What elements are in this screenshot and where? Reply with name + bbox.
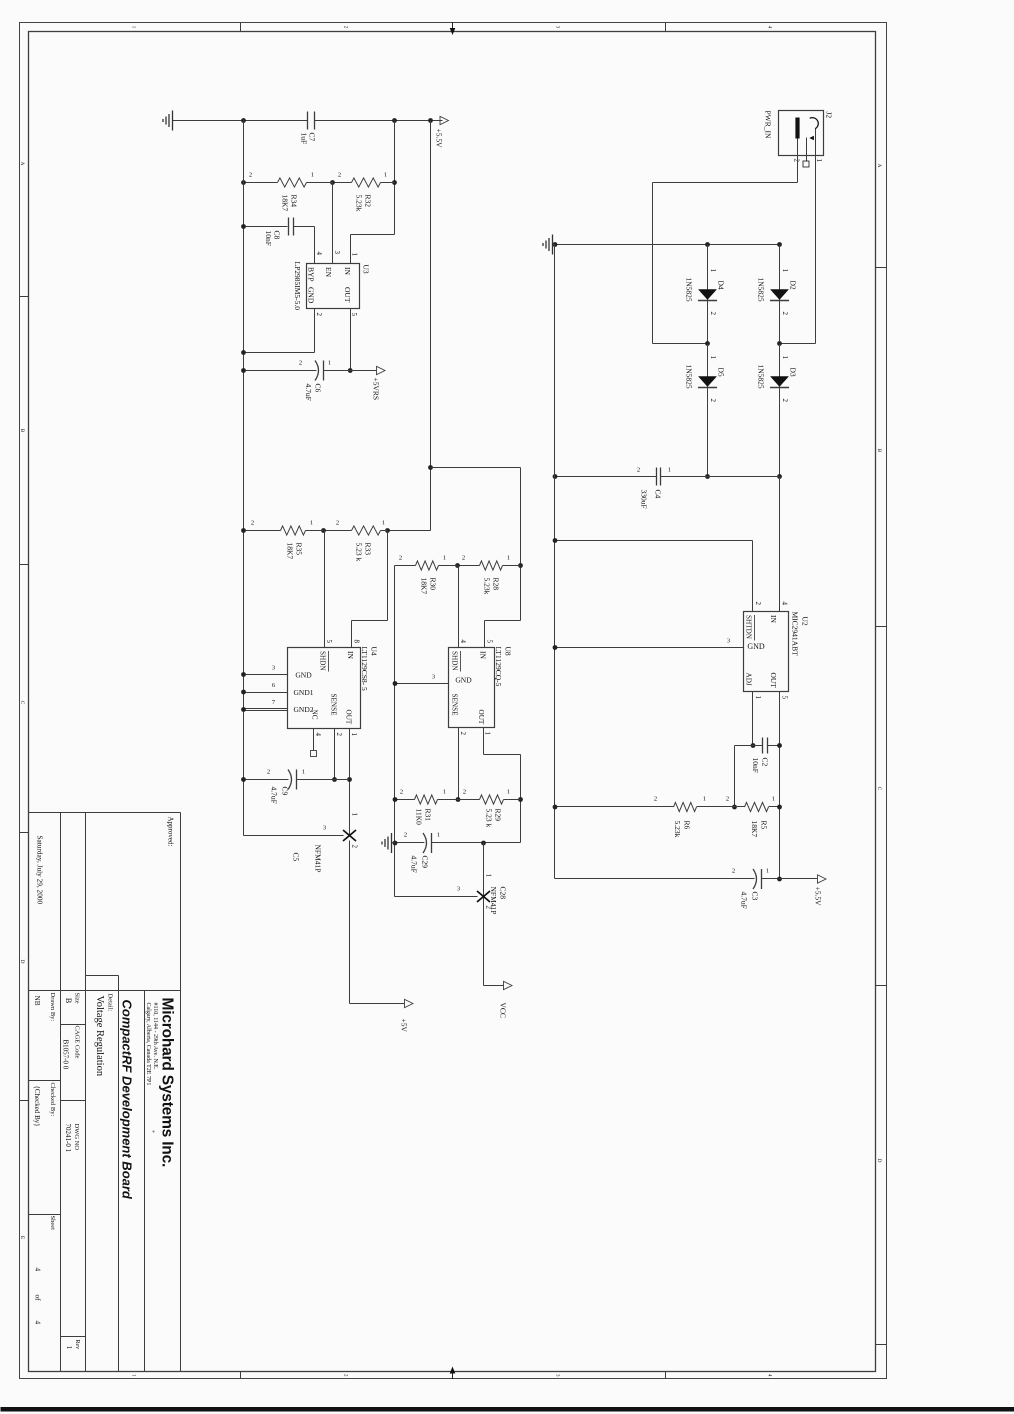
node D2 anode — [777, 242, 782, 247]
svg-text:C: C — [19, 701, 25, 705]
svg-text:GND1: GND1 — [294, 688, 314, 697]
ground G1 — [173, 120, 175, 122]
svg-text:of: of — [34, 1295, 43, 1302]
J2 sleeve hook — [810, 118, 819, 129]
svg-text:1: 1 — [382, 520, 385, 527]
wire R28 top route — [520, 566, 522, 621]
svg-text:3: 3 — [727, 638, 730, 645]
svg-text:NFM41P: NFM41P — [314, 845, 323, 873]
node C6 gnd — [241, 368, 246, 373]
svg-text:5: 5 — [486, 640, 494, 644]
diode D3 1N5825 — [779, 344, 781, 477]
wire U4 in route — [387, 531, 389, 621]
wire +55 to R33 — [388, 530, 431, 532]
svg-text:2: 2 — [709, 399, 717, 403]
ground G2 — [553, 244, 555, 246]
sheet inner border — [29, 32, 876, 1372]
resistor R5 18K7 — [769, 806, 780, 808]
svg-text:R31: R31 — [424, 809, 433, 822]
svg-text:10nF: 10nF — [264, 231, 273, 246]
svg-text:IN: IN — [343, 267, 352, 275]
J2 centre pin bar — [795, 118, 799, 139]
wire gnd bus — [554, 245, 556, 879]
svg-text:2: 2 — [754, 602, 762, 606]
svg-text:1: 1 — [815, 159, 823, 163]
svg-text:1: 1 — [766, 868, 769, 875]
capacitor C8 — [294, 226, 315, 228]
svg-text:GND2: GND2 — [294, 705, 314, 714]
svg-text:1: 1 — [484, 732, 492, 736]
capacitor C4 330uF — [661, 476, 780, 478]
svg-text:D: D — [19, 960, 25, 964]
svg-text:18K7: 18K7 — [420, 578, 429, 595]
node D2-D3 — [777, 341, 782, 346]
svg-text:R35: R35 — [295, 543, 304, 556]
zone ticks right border — [665, 1372, 667, 1379]
ground G3 — [392, 842, 395, 844]
node adj — [751, 743, 756, 748]
node rail C8 tee — [392, 118, 397, 123]
svg-text:Drawn By:: Drawn By: — [49, 993, 56, 1022]
svg-text:D2: D2 — [789, 281, 798, 290]
svg-text:OUT: OUT — [343, 287, 352, 303]
node R28 top — [518, 563, 523, 568]
svg-text:1: 1 — [311, 172, 314, 179]
svg-text:R34: R34 — [290, 195, 299, 208]
svg-text:C29: C29 — [421, 856, 430, 869]
wire U4 gnd2 double — [244, 708, 288, 710]
wire U2 gnd — [555, 647, 744, 649]
svg-text:2: 2 — [336, 520, 339, 527]
svg-text:2: 2 — [338, 172, 341, 179]
svg-text:5: 5 — [350, 313, 358, 317]
wire U8 gnd — [395, 683, 449, 685]
regulator U2 box — [744, 612, 789, 692]
node C9 gnd — [241, 777, 246, 782]
svg-text:1: 1 — [351, 813, 359, 817]
svg-text:CompactRF Development Board: CompactRF Development Board — [120, 1000, 135, 1200]
svg-text:1: 1 — [668, 467, 671, 474]
speck near company name — [153, 1131, 155, 1133]
wire U4 out — [349, 729, 351, 836]
svg-text:2: 2 — [351, 845, 359, 849]
svg-text:NFM41P: NFM41P — [489, 887, 498, 915]
svg-text:3: 3 — [555, 26, 560, 29]
node +5v branch — [428, 465, 433, 470]
svg-text:1: 1 — [131, 26, 136, 29]
wire U3 out — [350, 309, 352, 371]
svg-text:R29: R29 — [494, 809, 503, 822]
svg-text:LT1129CS8- 5: LT1129CS8- 5 — [360, 647, 369, 691]
wire U4 shdn — [324, 531, 326, 648]
svg-text:1: 1 — [485, 874, 493, 878]
wire U2 out — [779, 692, 781, 879]
svg-text:7: 7 — [272, 699, 276, 706]
node R35 gnd — [241, 528, 246, 533]
svg-text:OUT: OUT — [477, 710, 485, 725]
resistor R31 11K0 — [438, 799, 459, 801]
node R33 top — [385, 528, 390, 533]
resistor R30 18K7 — [439, 565, 458, 567]
svg-text:Microhard Systems Inc.: Microhard Systems Inc. — [159, 998, 176, 1168]
svg-text:GND: GND — [295, 671, 312, 680]
svg-text:A: A — [876, 164, 882, 168]
svg-text:1: 1 — [781, 356, 789, 360]
node R31 gnd — [393, 797, 398, 802]
svg-text:5.23k: 5.23k — [483, 578, 492, 595]
svg-text:1: 1 — [437, 832, 440, 839]
svg-text:2: 2 — [404, 832, 407, 839]
svg-text:R32: R32 — [364, 195, 373, 208]
wire U4 gnd1 — [244, 692, 288, 694]
wire bridge left — [555, 244, 780, 246]
resistor R32 — [381, 182, 395, 184]
svg-text:1: 1 — [754, 696, 762, 700]
node R5 top — [777, 805, 782, 810]
svg-text:GND: GND — [455, 676, 472, 685]
svg-text:B: B — [19, 429, 25, 433]
svg-text:330uF: 330uF — [640, 490, 649, 509]
power +5.5V arrow A — [440, 116, 449, 124]
svg-text:2: 2 — [251, 520, 254, 527]
svg-text:2: 2 — [732, 868, 735, 875]
J2 switch arrow — [809, 136, 814, 141]
svg-text:2: 2 — [400, 789, 403, 796]
scan edge line — [1, 1407, 1014, 1412]
connector J2 box — [779, 111, 824, 156]
wire U2 adj — [752, 692, 754, 746]
svg-text:SHDN: SHDN — [451, 651, 459, 671]
node R33-R35 / shdn tap — [321, 528, 326, 533]
svg-text:2: 2 — [654, 796, 657, 803]
svg-text:5.23k: 5.23k — [673, 821, 682, 838]
svg-text:PWR_IN: PWR_IN — [764, 111, 773, 140]
svg-text:4: 4 — [315, 252, 323, 256]
svg-text:2: 2 — [335, 733, 343, 737]
svg-text:10nF: 10nF — [751, 758, 760, 773]
svg-text:1: 1 — [443, 555, 446, 562]
svg-text:IN: IN — [346, 651, 355, 659]
svg-text:2: 2 — [343, 1374, 348, 1377]
svg-text:1N5825: 1N5825 — [757, 365, 766, 389]
diode D5 1N5825 — [707, 344, 709, 477]
svg-text:8: 8 — [353, 640, 361, 644]
svg-text:4: 4 — [314, 733, 322, 737]
wire U3 gnd route — [314, 309, 316, 353]
svg-text:U4: U4 — [370, 647, 379, 656]
diode D4 1N5825 — [707, 245, 709, 344]
svg-text:C28: C28 — [499, 887, 508, 900]
svg-text:4.7uF: 4.7uF — [410, 856, 419, 873]
svg-text:2: 2 — [315, 313, 323, 317]
svg-text:Rev: Rev — [74, 1340, 80, 1350]
svg-text:3: 3 — [432, 674, 435, 681]
J2 switch stub — [806, 138, 808, 162]
regulator U4 box — [288, 648, 361, 729]
svg-text:11K0: 11K0 — [415, 809, 424, 826]
centre arrow left border — [452, 23, 454, 34]
wire +5V out — [349, 841, 351, 1004]
svg-text:2: 2 — [399, 555, 402, 562]
svg-text:1: 1 — [328, 360, 331, 367]
wire +5.5V rail top — [315, 120, 443, 122]
svg-text:2: 2 — [463, 789, 466, 796]
svg-text:LT1129CQ-5: LT1129CQ-5 — [494, 647, 503, 687]
svg-text:6: 6 — [272, 682, 276, 689]
svg-text:+5.5V: +5.5V — [814, 887, 823, 907]
power +5VRS arrow — [351, 370, 377, 372]
svg-text:IN: IN — [769, 615, 778, 623]
capacitor C29 4.7uF — [432, 842, 521, 844]
svg-text:Saturday, July 29, 2000: Saturday, July 29, 2000 — [36, 836, 45, 905]
wire EN — [332, 183, 334, 264]
node R34 gnd — [241, 180, 246, 185]
capacitor C7 — [314, 112, 316, 130]
node D4 anode — [705, 242, 710, 247]
wire adj to divider — [735, 745, 753, 747]
svg-text:18K7: 18K7 — [750, 821, 759, 838]
svg-text:D: D — [876, 1159, 882, 1163]
node D4-D5 — [705, 341, 710, 346]
node R29 top — [518, 797, 523, 802]
svg-text:NB: NB — [33, 996, 42, 1006]
svg-text:2: 2 — [462, 555, 465, 562]
svg-text:2: 2 — [249, 172, 252, 179]
feedthrough C28 NFM41P — [483, 843, 485, 986]
svg-text:1N5825: 1N5825 — [685, 365, 694, 389]
node C2 top — [777, 743, 782, 748]
node R5-R6 — [732, 805, 737, 810]
regulator U8 box — [449, 648, 495, 728]
svg-text:2: 2 — [299, 360, 302, 367]
svg-text:Sheet: Sheet — [49, 1216, 56, 1231]
node C3 top — [777, 877, 782, 882]
svg-text:4: 4 — [767, 26, 772, 29]
svg-text:4: 4 — [34, 1268, 43, 1272]
svg-text:1N5825: 1N5825 — [685, 278, 694, 302]
feedthrough C5 NFM41P — [343, 830, 356, 841]
svg-text:3: 3 — [333, 251, 341, 255]
svg-text:OUT: OUT — [345, 710, 353, 725]
svg-text:OUT: OUT — [769, 673, 778, 689]
zone ticks left border — [665, 23, 667, 32]
svg-text:2: 2 — [267, 769, 270, 776]
svg-text:Checked By:: Checked By: — [49, 1083, 56, 1117]
svg-text:1: 1 — [443, 789, 446, 796]
svg-text:C2: C2 — [761, 758, 770, 767]
svg-text:C4: C4 — [654, 490, 663, 499]
wire U2 shtdn — [752, 541, 754, 612]
svg-text:4: 4 — [34, 1321, 43, 1325]
svg-text:SENSE: SENSE — [330, 694, 338, 717]
node U3 gnd — [241, 350, 246, 355]
wire U8 in route — [485, 620, 521, 622]
svg-text:2: 2 — [781, 399, 789, 403]
svg-text:U3: U3 — [362, 265, 371, 274]
wire U3-IN route — [394, 121, 396, 235]
svg-text:70241-0 1: 70241-0 1 — [64, 1124, 72, 1153]
svg-text:2: 2 — [726, 796, 729, 803]
svg-text:SHTDN: SHTDN — [745, 615, 753, 640]
svg-text:B: B — [876, 449, 882, 453]
svg-text:Voltage Regulation: Voltage Regulation — [94, 996, 105, 1077]
zone ticks top border — [876, 267, 887, 269]
power +5V arrow — [405, 999, 414, 1007]
diode D2 1N5825 — [779, 245, 781, 344]
title block frame — [29, 812, 181, 814]
power VCC arrow — [484, 985, 504, 987]
capacitor C3 4.7uF — [762, 878, 780, 880]
svg-text:1: 1 — [772, 796, 775, 803]
resistor R29 5.23 k — [504, 799, 521, 801]
svg-text:2: 2 — [459, 732, 467, 736]
svg-text:DWG NO: DWG NO — [73, 1124, 80, 1151]
svg-text:1: 1 — [350, 733, 358, 737]
svg-text:4.7uF: 4.7uF — [304, 384, 313, 401]
svg-text:SHDN: SHDN — [319, 651, 327, 671]
svg-text:GND: GND — [307, 287, 316, 304]
svg-text:D3: D3 — [789, 368, 798, 377]
svg-text:R33: R33 — [364, 543, 373, 556]
U4 nc stub — [313, 729, 315, 751]
svg-text:5.23k: 5.23k — [355, 195, 364, 212]
svg-text:4: 4 — [459, 640, 467, 644]
svg-text:R30: R30 — [429, 578, 438, 591]
svg-text:C9: C9 — [281, 787, 290, 796]
wire bridge to U2 IN — [779, 477, 781, 612]
capacitor C6 — [324, 370, 351, 372]
svg-text:U2: U2 — [801, 617, 810, 626]
node D3 out — [777, 474, 782, 479]
svg-text:2: 2 — [709, 312, 717, 316]
node C29 gnd — [393, 841, 398, 846]
resistor R28 5.23k — [503, 565, 521, 567]
wire +5.5V distribution — [430, 121, 432, 531]
svg-text:C5: C5 — [292, 853, 301, 862]
resistor R35 18K7 — [306, 530, 324, 532]
svg-text:1: 1 — [703, 796, 706, 803]
node C4 gnd — [553, 474, 558, 479]
node C8 gnd — [241, 224, 246, 229]
svg-text:1uF: 1uF — [300, 133, 309, 145]
svg-text:4.7uF: 4.7uF — [270, 787, 279, 804]
zone ticks bottom border — [20, 296, 29, 298]
op-amp U3 box — [307, 264, 360, 309]
resistor R6 5.23k — [697, 806, 735, 808]
node shtdn gnd — [553, 538, 558, 543]
svg-text:18K7: 18K7 — [281, 195, 290, 212]
svg-text:3: 3 — [457, 886, 460, 893]
node C29 top — [481, 841, 486, 846]
svg-text:B: B — [64, 998, 73, 1003]
wire U8 sense — [458, 728, 460, 800]
svg-text:IN: IN — [479, 651, 488, 659]
svg-text:C6: C6 — [314, 384, 323, 393]
node R28-R30 / shdn tap — [455, 563, 460, 568]
svg-text:5.23 k: 5.23 k — [485, 809, 494, 828]
svg-text:2: 2 — [637, 467, 640, 474]
svg-text:GND: GND — [747, 642, 765, 651]
node rail +55 tee — [428, 118, 433, 123]
node out-C6 — [348, 368, 353, 373]
node rail-gnd junction — [241, 118, 246, 123]
centre arrow right border — [452, 1368, 454, 1379]
svg-text:4: 4 — [781, 602, 789, 606]
svg-text:+5V: +5V — [400, 1019, 409, 1033]
wire J2 pin1 — [815, 129, 817, 344]
wire U4 gnd — [244, 674, 288, 676]
svg-text:2: 2 — [793, 159, 801, 163]
svg-text:5: 5 — [325, 640, 333, 644]
svg-text:#110, 1144 - 29th Ave. N.E.: #110, 1144 - 29th Ave. N.E. — [152, 1003, 158, 1070]
svg-text:3: 3 — [323, 825, 326, 832]
svg-text:B1057-0 0: B1057-0 0 — [62, 1040, 70, 1070]
svg-text:1: 1 — [709, 356, 717, 360]
capacitor C9 4.7uF — [297, 779, 350, 781]
svg-text:{Checked By}: {Checked By} — [33, 1086, 41, 1127]
svg-text:1: 1 — [310, 520, 313, 527]
svg-text:Size: Size — [74, 993, 81, 1004]
svg-text:18K7: 18K7 — [286, 543, 295, 560]
wire R32 top tee — [392, 180, 397, 185]
svg-text:MIC2941ABT: MIC2941ABT — [791, 612, 800, 657]
svg-text:J2: J2 — [825, 112, 834, 119]
wire J2 pin2 — [797, 139, 799, 183]
svg-text:CAGE Code: CAGE Code — [74, 1026, 81, 1059]
svg-text:1: 1 — [384, 172, 387, 179]
svg-text:R6: R6 — [683, 821, 692, 830]
svg-text:1: 1 — [507, 789, 510, 796]
svg-text:+5.5V: +5.5V — [435, 129, 444, 149]
wire +5v to chains corner — [431, 467, 521, 469]
wire U8 out — [483, 728, 485, 755]
svg-text:VCC: VCC — [499, 1003, 508, 1018]
svg-text:+5VRS: +5VRS — [372, 378, 381, 401]
svg-text:C: C — [876, 787, 882, 791]
svg-text:1: 1 — [65, 1346, 73, 1350]
wire gnd rail — [243, 121, 245, 836]
svg-text:4: 4 — [767, 1374, 772, 1377]
svg-text:3: 3 — [555, 1374, 560, 1377]
svg-text:SENSE: SENSE — [451, 694, 459, 717]
wire BYP — [314, 227, 316, 264]
svg-text:EN: EN — [324, 267, 333, 278]
svg-text:R5: R5 — [760, 821, 769, 830]
svg-text:2: 2 — [343, 26, 348, 29]
svg-text:D5: D5 — [717, 368, 726, 377]
svg-text:C3: C3 — [751, 892, 760, 901]
resistor R33 5.23k — [381, 530, 388, 532]
capacitor C2 10nF — [768, 745, 780, 747]
svg-text:4.7uF: 4.7uF — [740, 892, 749, 909]
svg-text:1: 1 — [709, 269, 717, 273]
wire U4 sense — [334, 729, 336, 780]
node EN tap — [330, 180, 335, 185]
wire gnd2 line — [394, 566, 396, 897]
svg-text:5: 5 — [781, 696, 789, 700]
svg-text:Calgary, Alberta, Canada T2E: Calgary, Alberta, Canada T2E 7P1 — [145, 1003, 151, 1086]
svg-text:D4: D4 — [717, 281, 726, 290]
resistor R34 — [307, 182, 333, 184]
svg-text:1: 1 — [302, 769, 305, 776]
svg-text:2: 2 — [781, 312, 789, 316]
svg-text:3: 3 — [272, 665, 275, 672]
wire U8 shdn — [458, 566, 460, 648]
svg-text:BYP: BYP — [307, 267, 316, 282]
svg-text:A: A — [19, 162, 25, 166]
svg-text:Detail:: Detail: — [107, 994, 114, 1012]
svg-text:1: 1 — [507, 555, 510, 562]
